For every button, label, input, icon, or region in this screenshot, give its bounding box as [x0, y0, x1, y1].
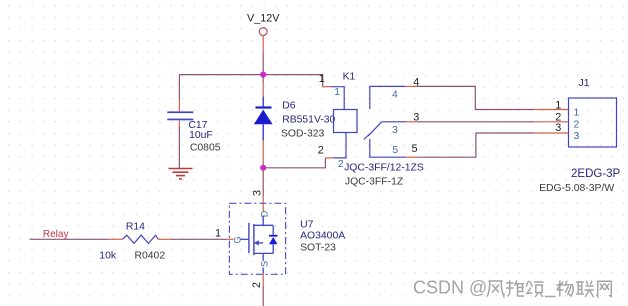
wire U7 source down — [262, 268, 264, 306]
svg-text:S: S — [260, 261, 270, 267]
wire C17 to ground — [178, 127, 180, 168]
svg-text:2: 2 — [574, 119, 580, 130]
svg-text:2: 2 — [338, 159, 344, 170]
svg-text:G: G — [233, 236, 243, 243]
wire V_12V to junction — [262, 36, 264, 75]
wire junction to U7 drain — [262, 168, 264, 212]
wire relay pin4 to J1 pin1 — [416, 86, 534, 109]
watermark chinese glyphs — [487, 281, 612, 298]
svg-text:Relay: Relay — [43, 229, 69, 240]
wire K1 pin2 to junction — [263, 158, 325, 168]
power port V_12V — [247, 13, 280, 36]
svg-text:K1: K1 — [343, 72, 356, 83]
svg-text:D6: D6 — [282, 100, 296, 111]
svg-text:J1: J1 — [579, 78, 590, 89]
wire Relay to R14 — [30, 238, 123, 240]
connector J1 — [534, 78, 621, 194]
svg-text:SOD-323: SOD-323 — [281, 128, 325, 139]
wire R14 to U7 gate — [158, 238, 226, 240]
svg-text:C0805: C0805 — [190, 143, 221, 154]
relay K1 coil — [318, 72, 357, 170]
svg-text:1: 1 — [334, 87, 340, 98]
svg-text:RB551V-30: RB551V-30 — [282, 115, 335, 126]
svg-text:1: 1 — [319, 73, 325, 85]
svg-text:JQC-3FF-1Z: JQC-3FF-1Z — [345, 177, 404, 188]
node junction top — [260, 72, 266, 78]
wire top rail — [179, 75, 322, 87]
wire to C17 — [178, 75, 180, 112]
transistor U7 — [215, 203, 345, 274]
svg-text:V_12V: V_12V — [247, 13, 280, 25]
svg-text:U7: U7 — [300, 220, 314, 231]
wire relay pin5 to J1 pin3 — [417, 133, 534, 157]
svg-text:1: 1 — [555, 100, 561, 112]
svg-text:5: 5 — [412, 143, 418, 155]
node junction bottom — [260, 165, 266, 171]
relay K1 contacts — [344, 76, 424, 187]
svg-text:3: 3 — [252, 190, 264, 196]
resistor R14 — [99, 221, 165, 261]
diode D6 — [254, 75, 336, 168]
svg-text:2: 2 — [318, 145, 324, 157]
capacitor C17 — [167, 111, 220, 153]
svg-text:4: 4 — [392, 90, 398, 101]
svg-text:10uF: 10uF — [189, 130, 213, 141]
svg-text:3: 3 — [574, 131, 580, 142]
ground — [169, 169, 193, 179]
svg-text:D: D — [260, 210, 270, 217]
svg-text:SOT-23: SOT-23 — [300, 243, 336, 254]
watermark CSDN — [413, 278, 488, 299]
svg-text:CSDN @: CSDN @ — [413, 278, 487, 298]
svg-text:R14: R14 — [126, 221, 145, 232]
svg-text:AO3400A: AO3400A — [300, 231, 345, 242]
svg-text:1: 1 — [574, 108, 580, 119]
svg-text:3: 3 — [392, 125, 398, 136]
svg-text:EDG-5.08-3P/W: EDG-5.08-3P/W — [539, 183, 614, 194]
svg-text:1: 1 — [215, 227, 221, 239]
svg-text:R0402: R0402 — [135, 250, 166, 261]
svg-text:JQC-3FF/12-1ZS: JQC-3FF/12-1ZS — [344, 163, 424, 174]
svg-text:2EDG-3P: 2EDG-3P — [571, 168, 621, 180]
svg-text:2: 2 — [251, 282, 263, 288]
wire relay pin3 to J1 pin2 — [417, 121, 534, 123]
svg-text:3: 3 — [555, 122, 561, 134]
svg-text:10k: 10k — [99, 250, 117, 261]
svg-text:5: 5 — [392, 145, 398, 156]
